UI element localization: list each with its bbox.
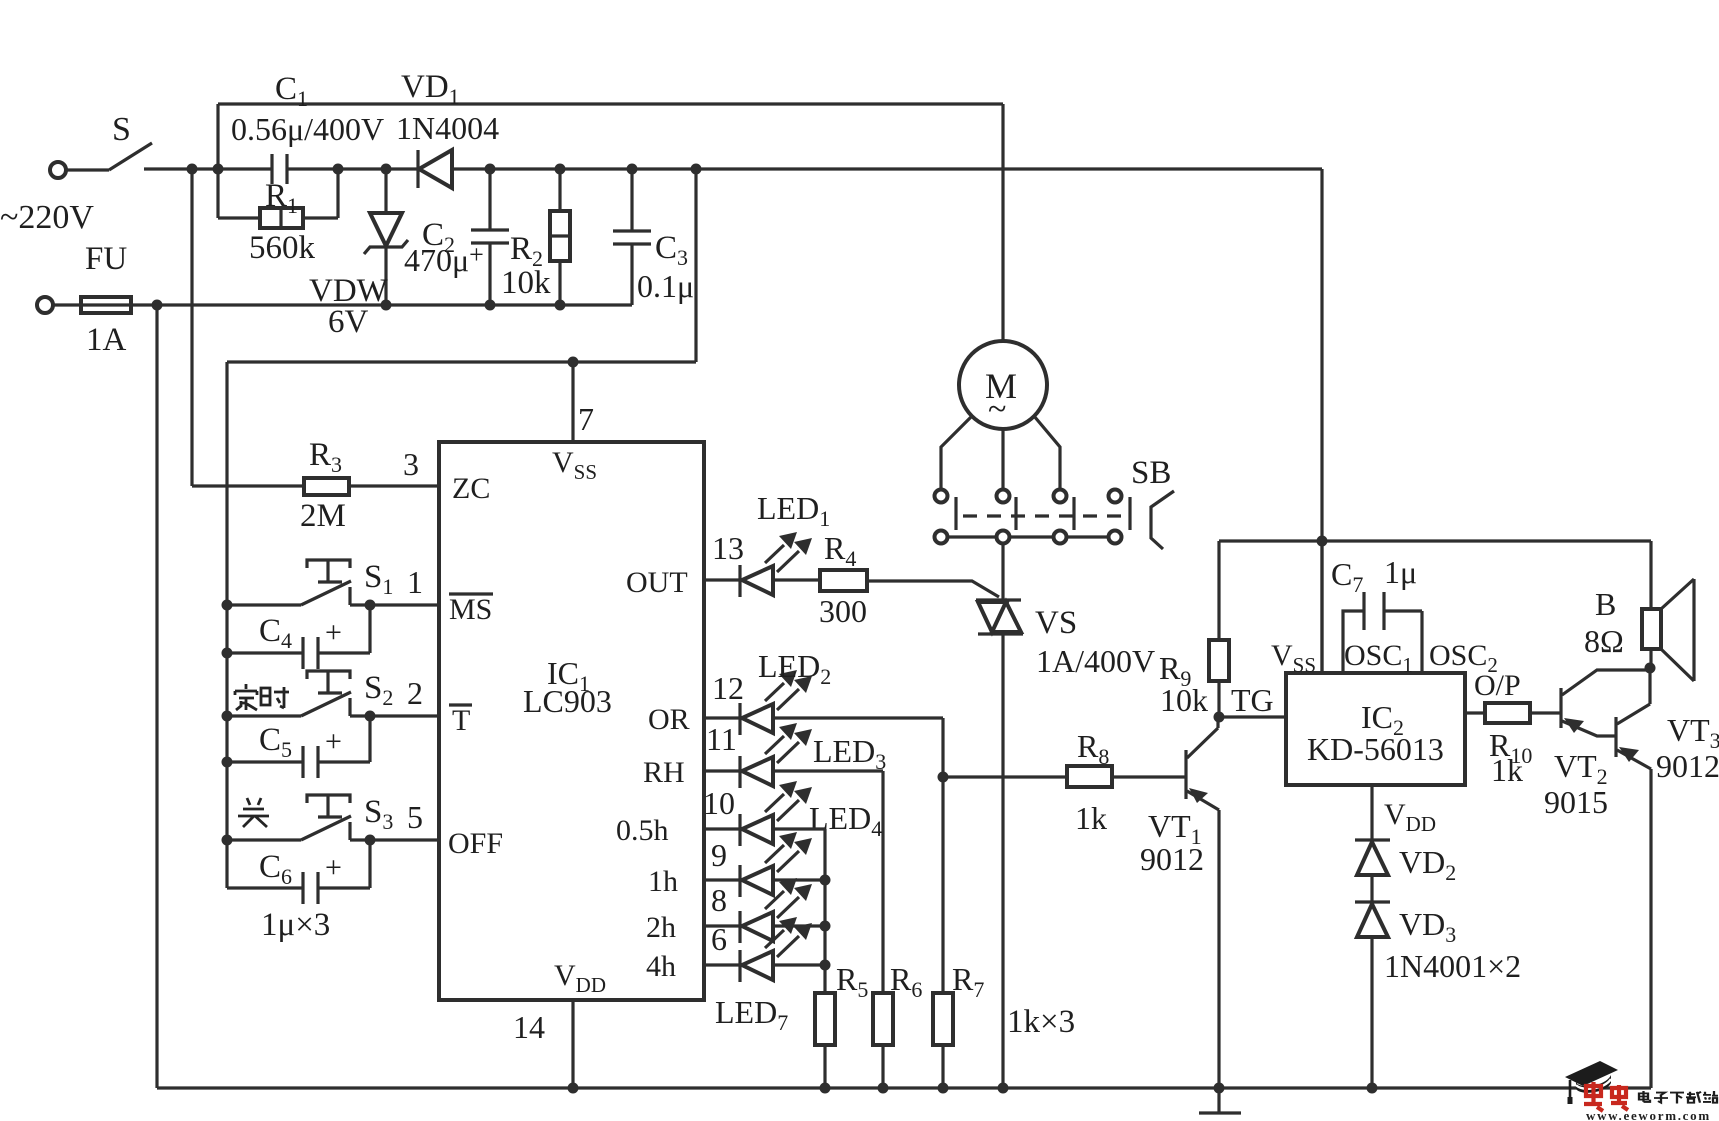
node rail-VT1-ground (1214, 1083, 1225, 1094)
logo site name characters (1639, 1091, 1718, 1103)
svg-text:0.5h: 0.5h (616, 814, 669, 847)
wire main live line (144, 167, 1322, 170)
node live-ZC feeder (187, 164, 198, 175)
capacitor C2 (488, 169, 491, 230)
svg-text:1A: 1A (86, 322, 127, 358)
node T-C5 (365, 711, 376, 722)
resistor R9 (1217, 541, 1220, 640)
switch S blade (66, 143, 152, 170)
switch SB pole3 (1054, 490, 1067, 503)
wire SB to triac (1001, 543, 1004, 600)
svg-text:1A/400V: 1A/400V (1036, 643, 1155, 679)
wire pin9 (704, 878, 740, 881)
wire pin10 (704, 827, 740, 830)
switch S1 (301, 560, 351, 605)
resistor R2 (558, 169, 561, 211)
resistor R3 (192, 484, 304, 487)
wire pin6 (704, 963, 740, 966)
capacitor C6 (227, 886, 303, 889)
svg-text:10k: 10k (1160, 682, 1208, 718)
node 1h-R5 (820, 875, 831, 886)
svg-text:1k×3: 1k×3 (1007, 1004, 1075, 1040)
op-amp U1 IC1 LC903 box (439, 442, 704, 1000)
svg-text:+: + (325, 725, 342, 758)
node TG (1214, 712, 1225, 723)
svg-text:560k: 560k (249, 230, 316, 266)
wire live to audio rail (1320, 169, 1323, 673)
wire top rail (218, 104, 1003, 341)
svg-text:www.eeworm.com: www.eeworm.com (1586, 1108, 1711, 1121)
svg-text:VS: VS (1035, 605, 1077, 641)
node rail-VD3 (1367, 1083, 1378, 1094)
node T-rail (222, 711, 233, 722)
resistor R5 (815, 993, 835, 1045)
wire TG to IC2 (1219, 715, 1286, 718)
motor M (959, 341, 1047, 429)
speaker B (1649, 541, 1652, 609)
svg-text:13: 13 (712, 530, 744, 566)
svg-text:T: T (452, 704, 470, 737)
node 4h-R5 (820, 960, 831, 971)
svg-text:1N4004: 1N4004 (396, 110, 499, 146)
node speaker-collector (1645, 663, 1656, 674)
svg-text:S: S (112, 111, 131, 148)
wire motor leads (1001, 429, 1004, 489)
zener VDW (384, 169, 387, 213)
capacitor C3 (630, 169, 633, 231)
svg-text:6: 6 (711, 921, 727, 957)
node OFF-C6 (365, 835, 376, 846)
svg-text:KD-56013: KD-56013 (1307, 731, 1444, 767)
wire 0.5h to R5 (773, 829, 825, 993)
wire pin7 vss (571, 362, 574, 442)
wire C1 left vertical (216, 104, 219, 218)
fuse FU terminal (37, 297, 53, 313)
switch SB actuator (1151, 491, 1174, 549)
node neutral-left rail (152, 300, 163, 311)
svg-text:6V: 6V (328, 304, 369, 340)
node live-vss feeder (691, 164, 702, 175)
wire IC2 vss pin (1320, 541, 1323, 673)
wire pin12 (704, 716, 740, 719)
capacitor C7 (1343, 611, 1364, 673)
resistor R7 (933, 993, 953, 1045)
svg-text:OR: OR (648, 703, 690, 736)
svg-text:9012: 9012 (1656, 748, 1719, 784)
LED LED3 (740, 723, 812, 788)
wire pin13 (704, 578, 740, 581)
wire pin14 vdd (571, 1000, 574, 1088)
svg-text:4h: 4h (646, 950, 676, 983)
node live-R1 right (333, 164, 344, 175)
wire SB bottom bus (948, 535, 1108, 538)
resistor R8 (943, 775, 1067, 778)
svg-text:+: + (325, 616, 342, 649)
wire RH to R6 (773, 771, 883, 993)
svg-text:2: 2 (407, 675, 423, 711)
svg-text:0.1μ: 0.1μ (637, 268, 694, 304)
node neutral-VDW (381, 300, 392, 311)
svg-text:8Ω: 8Ω (1584, 623, 1624, 659)
node neutral-R2 (555, 300, 566, 311)
svg-text:1μ: 1μ (1384, 554, 1417, 590)
svg-text:7: 7 (578, 401, 594, 437)
wire bottom rail (157, 1086, 1651, 1089)
svg-text:ZC: ZC (452, 472, 490, 505)
node neutral-C2 (485, 300, 496, 311)
node 2h-R5 (820, 921, 831, 932)
svg-text:1k: 1k (1491, 752, 1523, 788)
svg-text:RH: RH (643, 756, 685, 789)
svg-text:1h: 1h (648, 865, 678, 898)
diode VD2 (1355, 838, 1390, 841)
switch SB pole1 (935, 490, 948, 503)
switch SB pole4 (1109, 490, 1122, 503)
LED LED1 (740, 532, 812, 597)
svg-text:TG: TG (1231, 682, 1274, 718)
node vss pin7 (568, 357, 579, 368)
switch SB pole2 (997, 490, 1010, 503)
node C4 junction (222, 648, 233, 659)
wire 2h join (773, 924, 825, 927)
LED LED6 (740, 878, 812, 943)
node rail-R6 (878, 1083, 889, 1094)
wire T row (227, 714, 439, 717)
op-amp U2 IC2 KD-56013 box (1286, 673, 1465, 785)
svg-text:LC903: LC903 (523, 683, 612, 719)
node R8 tee (938, 772, 949, 783)
logo graduation cap (1565, 1061, 1618, 1086)
svg-text:300: 300 (819, 593, 867, 629)
svg-text:9: 9 (711, 837, 727, 873)
svg-text:OFF: OFF (448, 827, 503, 860)
wire IC2 vdd pin (1370, 785, 1373, 839)
label dingshi 定时 (235, 684, 289, 710)
ground (1217, 1088, 1220, 1112)
node rail-R7 (938, 1083, 949, 1094)
svg-text:2h: 2h (646, 911, 676, 944)
node live-C3 (627, 164, 638, 175)
svg-text:10: 10 (703, 785, 735, 821)
svg-text:1N4001×2: 1N4001×2 (1384, 948, 1521, 984)
svg-text:8: 8 (711, 882, 727, 918)
diode VD3 (1355, 900, 1390, 903)
switch S2 (301, 671, 351, 716)
wire switch rail (225, 362, 228, 888)
node rail-VS (998, 1083, 1009, 1094)
wire pin8 (704, 924, 740, 927)
svg-text:10k: 10k (501, 265, 551, 301)
node rail junction (1317, 536, 1328, 547)
wire vss feeder vertical (694, 169, 697, 362)
switch S3 (301, 795, 351, 840)
wire OFF row (227, 838, 439, 841)
node MS-C4 (365, 600, 376, 611)
wire left rail (155, 305, 158, 1088)
svg-text:12: 12 (712, 670, 744, 706)
resistor R6 (873, 993, 893, 1045)
wire OR to R7 (773, 718, 943, 993)
svg-text:1k: 1k (1075, 800, 1107, 836)
wire 1h join (773, 878, 825, 881)
svg-text:9015: 9015 (1544, 784, 1608, 820)
node live-C1 left (213, 164, 224, 175)
LED LED2 (740, 670, 812, 735)
node live-VDW (381, 164, 392, 175)
svg-text:1μ×3: 1μ×3 (261, 907, 330, 943)
svg-text:3: 3 (403, 446, 419, 482)
transistor Q2 VT2 (1559, 688, 1562, 728)
node C5 junction (222, 757, 233, 768)
wire neutral line (131, 303, 632, 306)
svg-text:1: 1 (407, 564, 423, 600)
node OFF-rail (222, 835, 233, 846)
svg-text:0.56μ/400V: 0.56μ/400V (231, 111, 384, 147)
svg-text:+: + (325, 851, 342, 884)
capacitor C1 (272, 154, 287, 184)
svg-text:MS: MS (449, 593, 492, 626)
svg-text:~220V: ~220V (0, 199, 94, 236)
node live-C2 (485, 164, 496, 175)
svg-text:11: 11 (706, 721, 737, 757)
node rail-pin14 (568, 1083, 579, 1094)
resistor R1 (218, 216, 260, 219)
capacitor C4 (227, 651, 303, 654)
resistor R10 (1465, 711, 1485, 714)
label guan 关 (238, 798, 269, 827)
node rail-R5 (820, 1083, 831, 1094)
svg-text:OUT: OUT (626, 566, 688, 599)
wire zc feeder vertical (190, 169, 193, 486)
switch S terminal (50, 162, 66, 178)
svg-text:B: B (1595, 586, 1616, 622)
wire MS row (227, 603, 439, 606)
wire pin11 (704, 769, 740, 772)
node MS-rail (222, 600, 233, 611)
svg-text:O/P: O/P (1474, 669, 1521, 702)
node live-R2 (555, 164, 566, 175)
triac VS (976, 600, 1023, 634)
svg-text:5: 5 (407, 799, 423, 835)
LED LED5 (740, 832, 812, 897)
wire 4h join (773, 963, 825, 966)
transistor Q1 VT1 (1184, 750, 1187, 799)
LED LED7 (740, 917, 812, 982)
svg-text:14: 14 (513, 1009, 545, 1045)
LED LED4 (740, 781, 812, 846)
resistor R4 (773, 578, 820, 581)
capacitor C5 (227, 760, 303, 763)
wire audio top rail (1219, 539, 1651, 542)
svg-text:FU: FU (85, 241, 127, 277)
wire vss horizontal (227, 360, 696, 363)
svg-text:2M: 2M (300, 498, 346, 534)
svg-text:9012: 9012 (1140, 841, 1204, 877)
fuse FU (53, 303, 81, 306)
svg-text:SB: SB (1131, 455, 1171, 491)
svg-text:~: ~ (988, 391, 1006, 428)
logo chongchong red characters (1584, 1082, 1628, 1111)
transistor Q3 VT3 (1614, 717, 1617, 757)
diode VD1 (416, 150, 419, 188)
wire SB dashed link (963, 514, 1124, 517)
